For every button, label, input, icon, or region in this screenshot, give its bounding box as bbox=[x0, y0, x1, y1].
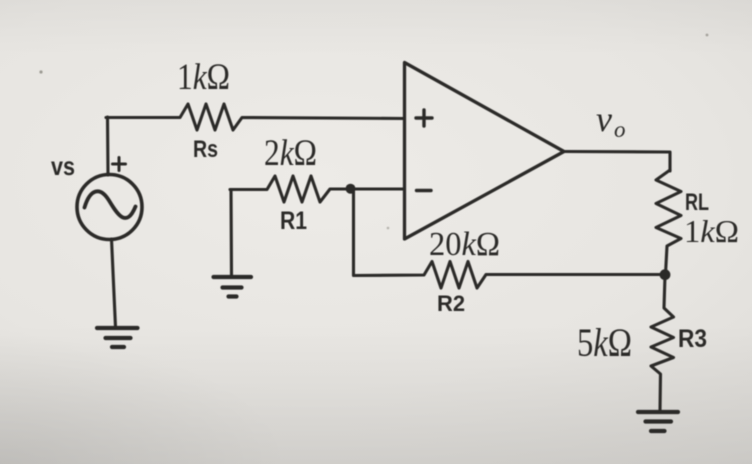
svg-text:5kΩ: 5kΩ bbox=[577, 320, 632, 365]
svg-text:vo: vo bbox=[596, 99, 625, 142]
svg-text:RL: RL bbox=[685, 189, 709, 216]
svg-text:Rs: Rs bbox=[193, 136, 218, 163]
svg-text:1kΩ: 1kΩ bbox=[177, 57, 230, 98]
svg-text:R3: R3 bbox=[678, 325, 707, 353]
svg-text:2kΩ: 2kΩ bbox=[264, 133, 317, 174]
svg-text:R2: R2 bbox=[437, 291, 465, 316]
svg-text:R1: R1 bbox=[280, 207, 307, 235]
svg-text:20kΩ: 20kΩ bbox=[429, 226, 500, 263]
svg-text:1kΩ: 1kΩ bbox=[684, 213, 739, 249]
svg-text:vs: vs bbox=[51, 151, 75, 181]
